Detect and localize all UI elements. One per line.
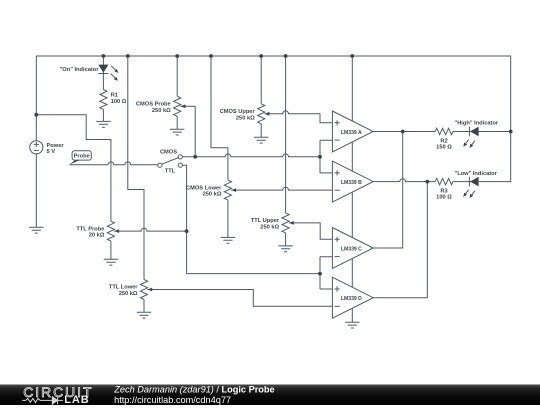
svg-text:LM339 D: LM339 D xyxy=(341,296,362,302)
svg-text:5 V: 5 V xyxy=(47,149,56,155)
svg-text:LAB: LAB xyxy=(64,394,89,405)
svg-text:"Low" Indicator: "Low" Indicator xyxy=(455,171,498,177)
svg-text:250 kΩ: 250 kΩ xyxy=(152,108,171,114)
svg-text:Probe: Probe xyxy=(74,154,90,160)
svg-text:CMOS Lower: CMOS Lower xyxy=(186,185,222,191)
svg-text:250 kΩ: 250 kΩ xyxy=(119,291,138,297)
svg-text:100 Ω: 100 Ω xyxy=(436,195,452,201)
svg-text:http://circuitlab.com/cdn4q77: http://circuitlab.com/cdn4q77 xyxy=(114,395,231,405)
svg-text:CMOS Probe: CMOS Probe xyxy=(136,102,171,108)
svg-text:LM339 A: LM339 A xyxy=(341,130,362,136)
svg-text:R1: R1 xyxy=(111,93,118,99)
svg-text:TTL Lower: TTL Lower xyxy=(109,285,138,291)
svg-text:20 kΩ: 20 kΩ xyxy=(89,233,105,239)
svg-text:CMOS: CMOS xyxy=(160,150,177,156)
svg-text:"High" Indicator: "High" Indicator xyxy=(455,120,499,126)
svg-text:TTL Probe: TTL Probe xyxy=(76,226,104,232)
svg-text:250 kΩ: 250 kΩ xyxy=(260,224,279,230)
svg-text:Zech Darmanin (zdar91) / Logic: Zech Darmanin (zdar91) / Logic Probe xyxy=(113,384,274,394)
svg-text:TTL: TTL xyxy=(165,169,176,175)
svg-text:LM339 C: LM339 C xyxy=(341,246,362,252)
svg-text:250 kΩ: 250 kΩ xyxy=(203,192,222,198)
svg-text:TTL Upper: TTL Upper xyxy=(251,218,280,224)
svg-text:150 Ω: 150 Ω xyxy=(436,144,452,150)
svg-text:100 Ω: 100 Ω xyxy=(111,99,127,105)
svg-text:250 kΩ: 250 kΩ xyxy=(236,115,255,121)
svg-text:"On" Indicator: "On" Indicator xyxy=(60,67,100,73)
svg-text:CMOS Upper: CMOS Upper xyxy=(220,109,256,115)
svg-text:LM339 B: LM339 B xyxy=(341,180,362,186)
